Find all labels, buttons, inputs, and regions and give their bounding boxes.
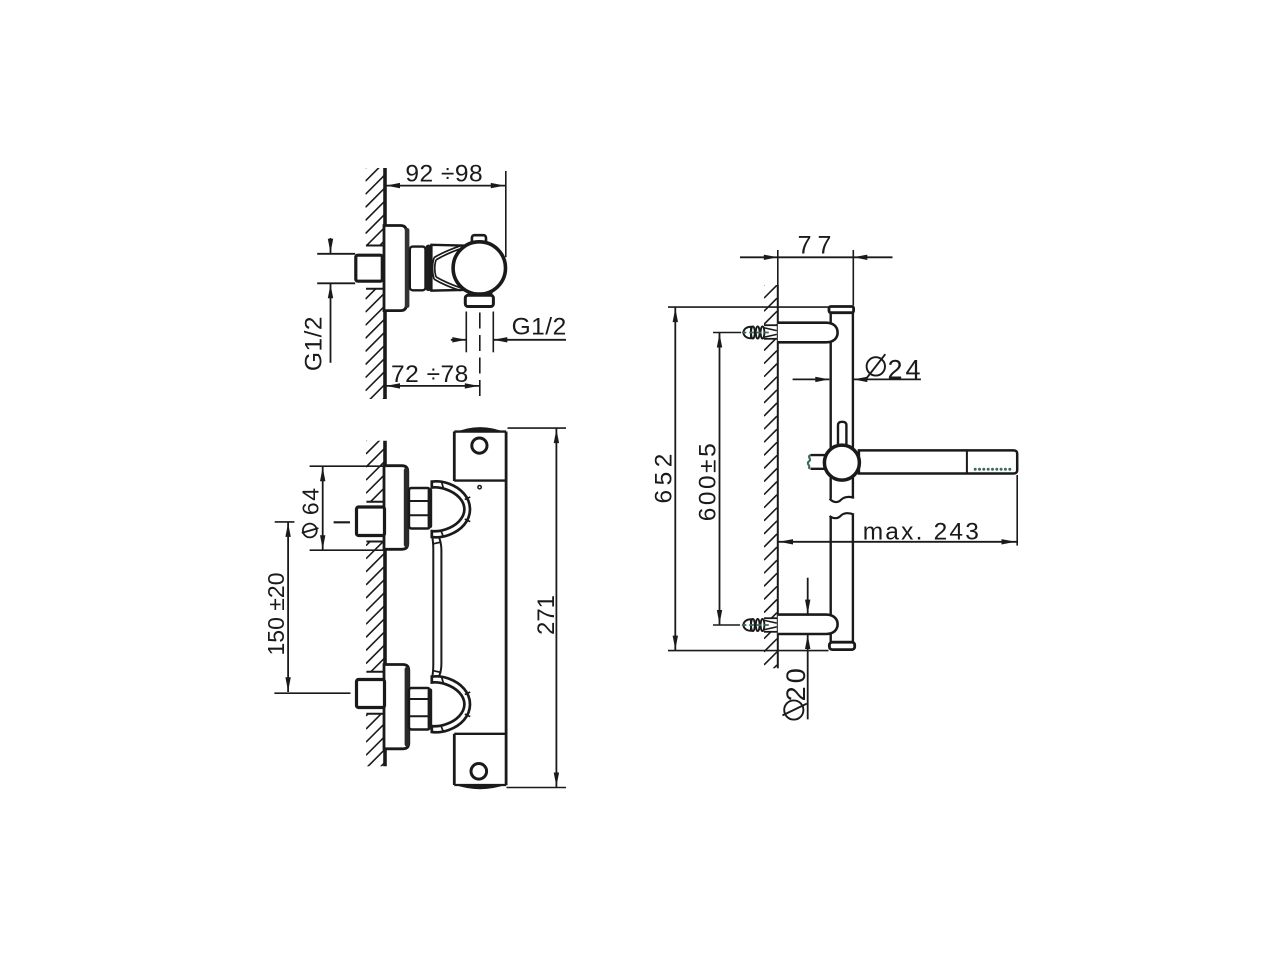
dim 600 arrows [717, 334, 722, 348]
dim 652 line [674, 307, 676, 650]
lower hex nut shadow [428, 689, 433, 730]
dim 271 line [555, 428, 557, 787]
dim 652 ext bottom [668, 650, 829, 652]
slider pin [838, 422, 846, 447]
upper hex nut [409, 488, 430, 529]
svg-text:20: 20 [781, 665, 811, 701]
funnel outer top [434, 246, 461, 258]
outlet collar wedge left [465, 290, 471, 294]
dim max243 ext right [1016, 475, 1018, 546]
f3 wall hole edges upper [764, 324, 777, 326]
dim 150 extension bottom [274, 692, 350, 694]
svg-text:72 ÷78: 72 ÷78 [391, 361, 469, 388]
dim 652 ext top [668, 306, 828, 308]
dim label 24 diameter symbol [867, 357, 885, 375]
svg-text:600±5: 600±5 [694, 441, 721, 521]
hand shower handle [859, 450, 1017, 473]
funnel inner bottom [436, 277, 461, 288]
dim 24 line left [793, 378, 830, 380]
dim 64 extension lines [310, 465, 384, 467]
dim 600 ext bottom [713, 624, 740, 626]
dim 72/78 line [385, 385, 480, 387]
top block joint line [454, 479, 506, 481]
upper wall screw [744, 327, 752, 339]
dim 72/78 arrows [386, 383, 400, 388]
bottom block bottom line [454, 784, 506, 786]
G1/2 right dim line [451, 339, 467, 341]
rail tube left line [830, 313, 832, 499]
dim 92/98 line [385, 185, 506, 187]
lower screw hole [471, 764, 487, 780]
outlet centerline dashed [479, 313, 481, 400]
dim 600 ext top [713, 332, 741, 334]
dim 92/98 extension line [505, 171, 507, 257]
outlet collar band [468, 292, 493, 296]
figure 2 wall hole edges lower [366, 671, 384, 673]
shower outlet body [465, 295, 493, 306]
dim 271 extension bottom [507, 787, 567, 789]
slider knob [824, 445, 859, 480]
funnel inner arc [435, 260, 436, 277]
svg-text:G1/2: G1/2 [300, 316, 327, 371]
funnel outer bottom [434, 279, 461, 291]
dim 77 line [740, 256, 893, 258]
lower hex nut flats [409, 698, 430, 700]
svg-text:92 ÷98: 92 ÷98 [405, 160, 483, 187]
upper wall bracket [778, 323, 838, 343]
upper escutcheon rim [404, 468, 409, 547]
upper hex nut flats [409, 500, 430, 502]
dim max243 arrows [779, 539, 793, 544]
lower escutcheon rim [405, 667, 410, 747]
connecting pipe right line [439, 537, 442, 677]
dim 20 lower [807, 634, 809, 719]
dim 77 arrows [764, 255, 778, 260]
dim 77 extensions [777, 250, 779, 285]
spray dots [974, 468, 977, 471]
temperature knob circle [453, 242, 505, 294]
f3 wall hole edges lower [764, 617, 777, 619]
dim 64 arrows [320, 467, 325, 481]
column right edge [505, 432, 508, 786]
svg-text:64: 64 [298, 487, 324, 516]
rail tube right line [852, 313, 854, 498]
lower escutcheon plate [384, 665, 409, 749]
dim 271 arrows [554, 429, 559, 443]
upper union joints [442, 482, 444, 488]
cone housing [431, 245, 463, 291]
dim 20 upper [807, 578, 809, 615]
top block left edge [453, 432, 456, 482]
upper inlet tick [334, 521, 350, 523]
bottom block left edge [453, 734, 456, 785]
figure 1 wall hole edge lines [366, 245, 384, 247]
hose break squiggle [808, 455, 811, 469]
pipe junction ticks [433, 542, 441, 544]
G1/2 left dim arrows [330, 238, 332, 254]
funnel outer arc [432, 258, 434, 280]
knob top tab [472, 235, 486, 247]
dim label 20 diameter symbol [784, 700, 803, 719]
lower union joints [441, 677, 470, 732]
upper union ring [432, 481, 470, 537]
rail break waves [830, 497, 854, 502]
svg-text:150 ±20: 150 ±20 [263, 573, 289, 656]
figure 2 wall line [383, 441, 387, 767]
rail top cap [829, 307, 854, 313]
mixer column fill [454, 428, 506, 787]
flange ring [426, 245, 432, 291]
svg-text:G1/2: G1/2 [512, 314, 567, 341]
top cap lens [454, 427, 506, 433]
rail tube fill [830, 311, 854, 643]
dim 92/98 arrows [386, 183, 400, 188]
upper hex nut shadow [428, 489, 433, 529]
dim 24 line right [853, 378, 921, 380]
lower square nut [357, 680, 385, 708]
dim label 64 diameter symbol [303, 524, 317, 538]
svg-text:max. 243: max. 243 [863, 519, 981, 546]
G1/2 left extension lines [317, 253, 355, 255]
neck cylinder [410, 247, 426, 291]
connecting pipe left line [432, 537, 433, 676]
dim 150 line [287, 522, 289, 692]
bottom cap lens [454, 785, 506, 789]
figure 2 wall hole edges upper [366, 501, 384, 503]
dim 64 line [322, 466, 324, 550]
dim 600 line [719, 333, 721, 626]
pilot dot [478, 486, 481, 489]
svg-text:24: 24 [887, 355, 923, 385]
funnel inner top [436, 249, 461, 260]
upper square nut [357, 507, 385, 536]
outlet collar wedge right [489, 290, 495, 294]
upper screw centerline [742, 332, 771, 334]
lower wall bracket [778, 615, 838, 634]
figure 1 wall line [383, 168, 387, 399]
dim max243 line [778, 541, 1017, 543]
dim 271 extension top [508, 427, 567, 429]
svg-text:652: 652 [650, 449, 677, 503]
lower union ring [432, 676, 470, 732]
upper screw hole [472, 438, 487, 453]
svg-text:271: 271 [533, 595, 560, 635]
figure 3 wall line [777, 285, 779, 668]
escutcheon rim shadow [405, 228, 410, 308]
rail bottom cap [829, 642, 854, 649]
lower screw centerline [742, 624, 771, 626]
lower hex nut [409, 688, 430, 730]
top block top line [454, 430, 506, 432]
dim 652 arrows [673, 308, 678, 322]
bottom block joint line [454, 733, 506, 735]
hose stub [811, 455, 829, 469]
square nut behind wall [356, 255, 383, 281]
svg-text:77: 77 [798, 231, 838, 259]
lower wall screw [744, 619, 752, 631]
dim 150 extension top [275, 521, 295, 523]
escutcheon plate side [384, 226, 406, 311]
handle divider line [966, 450, 968, 473]
upper escutcheon plate [384, 466, 408, 550]
outlet extension lines [465, 312, 467, 353]
dim 150 arrows [285, 523, 290, 537]
